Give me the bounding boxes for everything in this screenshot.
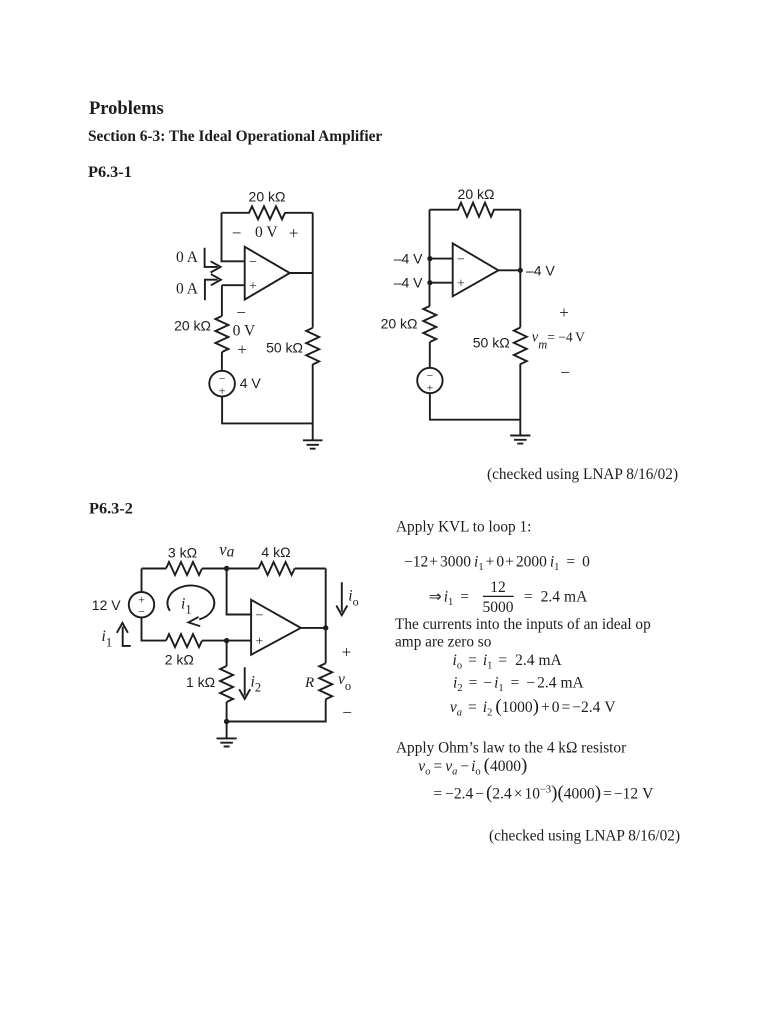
svg-text:4 V: 4 V (240, 375, 262, 391)
current arrow 0A bottom (205, 274, 221, 300)
wire inverting input c2 (430, 258, 453, 260)
svg-text:amp are zero so: amp are zero so (395, 633, 492, 650)
svg-text:Apply Ohm’s law to the 4 kΩ re: Apply Ohm’s law to the 4 kΩ resistor (396, 739, 626, 756)
resistor 4k c3 (259, 562, 295, 575)
wire left vertical c2 (429, 210, 431, 306)
svg-text:Section 6-3: The Ideal Operati: Section 6-3: The Ideal Operational Ampli… (88, 128, 382, 145)
current arrow 0A top (205, 248, 221, 273)
loop arrow i1 c3 (167, 586, 214, 620)
svg-text:−: − (138, 605, 145, 619)
svg-text:−: − (236, 303, 246, 322)
resistor 20k vertical c2 (423, 306, 436, 342)
ground symbol c3 (217, 738, 237, 746)
svg-text:+: + (559, 303, 569, 322)
svg-text:5000: 5000 (483, 599, 514, 616)
ground symbol (303, 440, 323, 448)
wire 2k to plus input c3 (202, 640, 251, 642)
svg-text:+: + (237, 340, 247, 359)
svg-text:4 kΩ: 4 kΩ (261, 544, 290, 560)
svg-text:20 kΩ: 20 kΩ (174, 318, 211, 334)
wire 50k to ground (312, 364, 314, 440)
svg-text:+: + (289, 224, 299, 243)
svg-text:–4 V: –4 V (394, 275, 423, 291)
node dot va c3 (224, 566, 229, 571)
resistor 2k c3 (166, 634, 202, 647)
svg-text:P6.3-2: P6.3-2 (89, 499, 133, 518)
voltage source 12V circle (129, 592, 154, 617)
resistor 3k c3 (166, 562, 202, 575)
svg-text:50 kΩ: 50 kΩ (473, 335, 510, 351)
svg-text:va=i2(1000)+0=−2.4V: va=i2(1000)+0=−2.4V (450, 696, 616, 719)
wire source to bottom c3 (142, 617, 167, 640)
resistor 50k vertical c2 (514, 328, 527, 365)
resistor 20k feedback c2 (430, 203, 521, 217)
node dot output c3 (323, 625, 328, 630)
svg-text:+: + (256, 635, 264, 650)
svg-text:12: 12 (490, 579, 506, 596)
svg-text:R: R (304, 675, 314, 691)
svg-text:−: − (457, 253, 465, 268)
svg-text:50 kΩ: 50 kΩ (266, 340, 303, 356)
svg-text:Problems: Problems (89, 99, 164, 119)
svg-text:20 kΩ: 20 kΩ (458, 186, 495, 202)
wire op-amp output c2 (498, 269, 520, 271)
wire left vertical to source c3 (141, 569, 143, 593)
svg-text:0 A: 0 A (176, 281, 199, 298)
wire right vertical c3 (325, 569, 327, 664)
svg-text:va: va (219, 540, 234, 561)
svg-text:Apply KVL to loop 1:: Apply KVL to loop 1: (396, 519, 531, 536)
node dot noninverting c2 (427, 280, 432, 285)
svg-text:12 V: 12 V (92, 597, 121, 613)
svg-text:+: + (249, 279, 257, 294)
wire top-left vertical (to inverting input) (222, 213, 245, 261)
svg-text:0 V: 0 V (233, 323, 256, 340)
op-amp U3 triangle (251, 600, 301, 655)
svg-text:+: + (457, 277, 465, 292)
wire va node down to inverting input c3 (227, 569, 252, 615)
current arrow i1 up c3 (117, 623, 131, 646)
svg-text:vo=va−io(4000): vo=va−io(4000) (418, 755, 527, 778)
wire noninverting input c2 (430, 282, 453, 284)
wire source to bottom (222, 396, 313, 423)
fraction bar (483, 595, 514, 597)
svg-text:20 kΩ: 20 kΩ (249, 189, 286, 205)
node dot plus input c3 (224, 638, 229, 643)
node dot bottom c3 (224, 719, 229, 724)
node dot inverting c2 (427, 256, 432, 261)
voltage source Vs 4V circle (209, 371, 235, 397)
current arrow i2 down c3 (239, 667, 250, 699)
svg-text:2 kΩ: 2 kΩ (165, 652, 194, 668)
op-amp U1 triangle (245, 247, 290, 300)
wire noninverting input (222, 284, 245, 286)
wire left branch to resistor (221, 285, 223, 316)
op-amp U2 triangle (453, 243, 499, 296)
wire resistor to source c2 (429, 342, 431, 368)
svg-text:The currents into the inputs o: The currents into the inputs of an ideal… (395, 616, 651, 633)
resistor 50k vertical (306, 328, 319, 365)
wire top left c3 (142, 568, 167, 570)
svg-text:(checked using LNAP 8/16/02): (checked using LNAP 8/16/02) (487, 466, 678, 483)
loop arrowhead i1 (188, 617, 200, 626)
wire 50k to ground c2 (519, 364, 521, 436)
svg-text:+: + (427, 380, 434, 394)
wire top mid c3 (202, 568, 259, 570)
svg-text:−: − (342, 703, 352, 722)
svg-text:(checked using LNAP 8/16/02): (checked using LNAP 8/16/02) (489, 828, 680, 845)
current arrow io down c3 (336, 582, 347, 615)
svg-text:20 kΩ: 20 kΩ (381, 315, 418, 331)
svg-text:i2=−i1=−2.4mA: i2=−i1=−2.4mA (453, 675, 585, 695)
voltage source c2 circle (417, 368, 442, 393)
svg-text:P6.3-1: P6.3-1 (88, 162, 132, 181)
svg-text:−: − (560, 363, 570, 382)
svg-text:3 kΩ: 3 kΩ (168, 545, 197, 561)
svg-text:−: − (232, 224, 242, 243)
wire source to bottom c2 (430, 393, 520, 420)
wire top right c3 (295, 568, 326, 570)
wire 1k to bottom node c3 (226, 702, 228, 738)
resistor 1k vertical c3 (220, 666, 233, 702)
resistor R vertical c3 (319, 663, 332, 699)
svg-text:−: − (249, 255, 257, 270)
wire op-amp output c3 (301, 627, 326, 629)
wire right vertical c2 (519, 210, 521, 328)
wire R to bottom c3 (227, 699, 326, 721)
resistor R-top 20k (feedback) (222, 206, 313, 219)
svg-text:−: − (256, 609, 264, 624)
svg-text:–4 V: –4 V (394, 250, 423, 266)
svg-text:0 A: 0 A (176, 249, 199, 266)
svg-text:+: + (219, 384, 226, 398)
ground symbol c2 (510, 436, 530, 444)
svg-text:1 kΩ: 1 kΩ (186, 674, 215, 690)
resistor 20k vertical (215, 316, 228, 352)
svg-text:+: + (342, 643, 352, 662)
wire 1k branch c3 (226, 641, 228, 666)
wire op-amp output (290, 272, 313, 274)
node dot output c2 (518, 268, 523, 273)
svg-text:–4 V: –4 V (526, 262, 555, 278)
svg-text:0 V: 0 V (255, 224, 278, 241)
wire resistor to source (221, 352, 223, 371)
wire right vertical (312, 213, 314, 328)
